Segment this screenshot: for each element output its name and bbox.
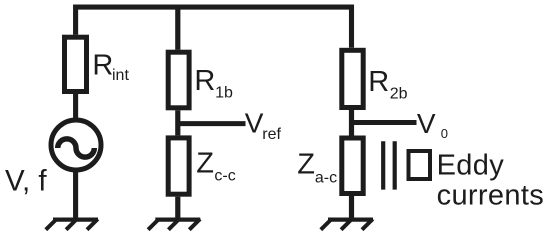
svg-text:V, f: V, f [5,164,47,197]
ground middle [148,219,200,230]
label R_1b [194,65,233,102]
impedance Z_c-c [168,138,189,194]
svg-text:0: 0 [441,126,448,141]
svg-text:1b: 1b [215,84,233,101]
eddy current plate bar 1 [381,141,385,189]
wire source to ground [73,171,78,220]
wire top bus from left branch to right branch [76,7,352,48]
AC source V,f [51,120,101,170]
wire node to V_0 [352,120,417,125]
wire Z_a-c to ground [349,194,354,220]
svg-text:V: V [417,108,436,139]
label V_ref [245,107,282,143]
svg-text:R: R [368,66,389,98]
wire R_int to source [73,94,78,120]
svg-text:currents: currents [437,180,545,212]
resistor R_1b [168,52,189,108]
svg-text:Eddy: Eddy [437,149,505,181]
ground left [46,219,98,230]
impedance Z_a-c [342,138,363,194]
svg-text:ref: ref [262,126,281,143]
svg-text:V: V [245,107,264,138]
wire Z_c-c to ground [175,197,180,220]
wire R_2b to Z_a-c through node [349,110,354,136]
label Z_a-c [297,149,337,187]
svg-text:c-c: c-c [214,168,235,185]
label Z_c-c [196,148,235,185]
ground right [321,219,373,230]
svg-text:Z: Z [297,149,315,181]
label Eddy currents [437,149,545,211]
label R_int [92,50,129,84]
resistor R_int [65,37,87,91]
wire node to V_ref [178,121,246,126]
wire middle branch drop from top bus [175,7,180,50]
svg-text:int: int [112,67,129,84]
eddy current plate bar 2 [393,141,397,189]
svg-text:a-c: a-c [315,170,337,187]
svg-text:R: R [92,50,113,82]
eddy current loop square [409,151,431,179]
label R_2b [368,66,407,102]
label V_0 [417,108,448,141]
wire R_1b to Z_c-c through node [175,110,180,135]
svg-text:R: R [194,65,215,97]
svg-text:Z: Z [196,148,214,180]
resistor R_2b [342,50,363,107]
svg-text:2b: 2b [390,85,408,102]
